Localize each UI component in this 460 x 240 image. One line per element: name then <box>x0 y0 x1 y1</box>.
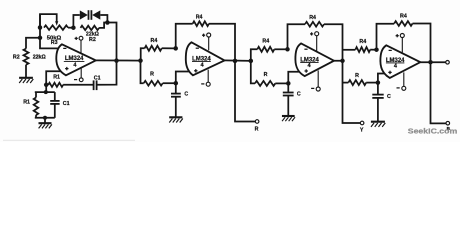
svg-text:C: C <box>184 91 188 97</box>
wire: feedback to output stage4 <box>413 24 431 63</box>
svg-text:R4: R4 <box>196 15 203 21</box>
junction R3/R2b/diode branch <box>71 25 76 30</box>
wire: U1C noninverting input <box>288 72 303 84</box>
junction stage3 input <box>249 59 254 64</box>
junction U1D output/feedback <box>428 60 433 64</box>
resistor R4 feedback stage2 <box>193 21 209 26</box>
svg-text:R2: R2 <box>13 55 20 61</box>
wire: series RC line <box>46 84 48 86</box>
svg-text:R4: R4 <box>309 15 316 21</box>
capacitor C stage3 plate 2 <box>283 95 294 97</box>
svg-text:SeekIC.com: SeekIC.com <box>408 126 458 135</box>
junction inverting node stage4 <box>374 47 379 52</box>
capacitor C1 parallel plate 1 <box>50 100 59 102</box>
ground at C stage3 <box>282 116 295 121</box>
capacitor C1 parallel plate 2 <box>50 103 59 105</box>
wire: R2b right lead up to junction <box>99 23 107 28</box>
wire: feedback riser stage2 <box>176 24 193 49</box>
op-amp U1A <box>56 44 96 75</box>
wire: stage2 input riser <box>141 48 145 60</box>
label R4 feedback stage3 <box>309 15 316 21</box>
wire: R3 right lead to node A2 <box>68 27 73 29</box>
ground at C stage4 <box>371 122 385 127</box>
junction U1C output / stage4 input <box>340 59 345 64</box>
wire: inverting node vertical (node A) <box>40 14 60 48</box>
wire: V- stub U1D <box>403 72 405 86</box>
wire: V+ stub U1B <box>208 37 210 50</box>
label C stage3 <box>297 91 301 97</box>
label R4 input stage4 <box>359 39 366 45</box>
op-amp U1C <box>295 43 334 76</box>
wire: U1B output to stage3 <box>225 59 251 62</box>
resistor R4 input stage4 <box>355 47 370 52</box>
junction parallel RC bottom <box>43 116 47 120</box>
svg-text:C1: C1 <box>63 101 70 107</box>
wire: C1p bottom lead <box>54 104 56 117</box>
label output Y <box>360 128 364 134</box>
svg-text:R: R <box>355 73 359 79</box>
cathode bar D1 <box>88 10 90 20</box>
svg-text:R4: R4 <box>359 39 366 45</box>
label R4 feedback stage4 <box>400 14 407 20</box>
wire: feedback to output stage2 <box>209 24 235 61</box>
junction inverting node stage3 <box>285 47 290 52</box>
svg-text:22kΩ: 22kΩ <box>33 55 47 61</box>
op-amp U1D <box>380 45 420 78</box>
wire: V+ stub U1D <box>401 38 403 53</box>
wire: C top lead stage3 <box>287 83 289 92</box>
resistor R4 feedback stage3 <box>305 22 324 27</box>
wire: R to C node stage3 <box>275 82 288 84</box>
label C1 parallel designator <box>63 101 70 107</box>
wire: R to C node stage2 <box>163 82 176 84</box>
capacitor C stage2 plate 1 <box>171 93 181 95</box>
wire: C1 to output riser <box>97 61 116 85</box>
wire: R2 bottom lead <box>25 65 27 78</box>
wire: feedback to output stage3 <box>324 24 343 61</box>
capacitor C stage3 plate 1 <box>283 92 294 94</box>
label R2b designator <box>89 37 96 43</box>
svg-text:R4: R4 <box>151 38 158 44</box>
wire: U1D noninverting input <box>378 74 389 83</box>
resistor R4 input stage2 <box>145 46 162 51</box>
wire: C top lead stage4 <box>377 83 379 94</box>
capacitor C stage4 plate 2 <box>372 97 383 99</box>
wire: R1p bottom lead <box>35 115 37 118</box>
wire: feedback riser stage3 <box>288 24 306 49</box>
pin V+ terminal U1D <box>400 34 404 38</box>
wire: C1p top lead <box>54 92 56 100</box>
wire: R2 top lead <box>26 38 40 49</box>
label C stage4 <box>387 94 391 100</box>
svg-text:Y: Y <box>360 128 364 134</box>
wire: to parallel RC <box>45 85 47 92</box>
wire: diode branch left riser <box>73 15 79 28</box>
wire: U1A noninverting input <box>46 71 62 85</box>
wire: V+ stub U1A <box>80 40 82 54</box>
resistor R stage4 <box>348 80 366 85</box>
wire: V- stub U1A <box>80 68 82 78</box>
wire: feedback riser stage4 <box>377 24 395 50</box>
wire: U1C output to stage4 <box>334 60 343 62</box>
resistor R2b 22k feedback <box>81 26 100 30</box>
capacitor C1 series plate 2 <box>96 80 98 90</box>
wire: U1D output <box>420 61 445 63</box>
terminal output R <box>255 120 259 124</box>
resistor R stage3 <box>255 81 275 86</box>
wire: output R tap <box>235 61 255 122</box>
wire: feedback to U1A output <box>107 23 116 61</box>
wire: output B tap <box>431 62 447 123</box>
wire: parallel RC bottom <box>35 117 55 119</box>
label R3 value 50kΩ <box>47 36 62 42</box>
scan artifact line <box>3 139 135 142</box>
ground at parallel RC <box>39 123 52 128</box>
label R1 series designator <box>53 75 60 81</box>
label R4 input stage2 <box>151 38 158 44</box>
potentiometer R3 50k <box>44 25 68 30</box>
svg-text:C: C <box>297 91 301 97</box>
label output B <box>447 126 451 131</box>
wire: stage3 input drop <box>251 61 255 84</box>
wire: C bottom lead stage4 <box>377 98 379 121</box>
label R2 value 22kΩ <box>33 55 47 61</box>
label R2 designator <box>13 55 20 61</box>
wire: R4 to inverting node stage2 <box>162 47 176 49</box>
resistor R1 series <box>48 83 63 87</box>
label R3 designator <box>51 40 58 46</box>
wire: R to C node stage4 <box>366 82 378 84</box>
junction stage2 input <box>138 58 143 63</box>
wire: stage2 input drop <box>141 61 144 84</box>
svg-text:R1: R1 <box>53 75 60 81</box>
wire: stage4 R4 branch <box>343 49 356 51</box>
junction diode/R2b right <box>105 20 110 25</box>
wiper arrow of R3 <box>55 21 58 26</box>
diode D1 <box>80 10 88 19</box>
svg-text:R2: R2 <box>89 37 96 43</box>
resistor R4 input stage3 <box>257 47 274 52</box>
wire: stage3 input riser <box>251 49 257 61</box>
junction RC node stage3 <box>286 81 291 86</box>
resistor R1 parallel <box>34 98 39 116</box>
label R stage4 <box>355 73 359 79</box>
junction RC node stage4 <box>376 80 381 85</box>
label R1 parallel designator <box>23 100 30 106</box>
junction parallel RC top <box>44 90 48 94</box>
pin V- terminal U1B <box>206 82 210 86</box>
label V+ U1D <box>396 34 399 37</box>
junction RC node stage2 <box>174 81 179 86</box>
op-amp U1B <box>186 42 225 75</box>
wire: R1 to C1 <box>63 84 93 86</box>
wire: output Y tap <box>343 61 361 123</box>
svg-text:R3: R3 <box>51 40 58 46</box>
pin V+ terminal U1C <box>315 32 319 36</box>
label V- U1C <box>311 87 314 89</box>
label R stage3 <box>264 72 268 78</box>
label C1 series designator <box>94 76 101 82</box>
wire: C bottom lead stage3 <box>287 96 289 116</box>
wire: V- stub U1C <box>317 70 319 87</box>
svg-text:R4: R4 <box>400 14 407 20</box>
wire: C bottom lead stage2 <box>175 97 177 117</box>
pin V- terminal U1A <box>79 78 83 82</box>
label C stage2 <box>184 91 188 97</box>
label R4 feedback stage2 <box>196 15 203 21</box>
resistor R stage2 <box>144 81 163 86</box>
pin V+ terminal U1B <box>207 33 211 37</box>
resistor R4 feedback stage4 <box>394 21 412 26</box>
wire: U1A output to U1B input <box>96 59 141 61</box>
capacitor C stage2 plate 2 <box>171 96 181 98</box>
svg-text:R: R <box>264 72 268 78</box>
junction inverting node stage2 <box>173 46 178 51</box>
ground at R2 <box>19 78 33 83</box>
svg-text:R: R <box>150 71 154 77</box>
watermark SeekIC.com <box>408 126 458 135</box>
label V+ U1B <box>202 34 205 37</box>
svg-text:R1: R1 <box>23 100 30 106</box>
wire: U1B noninverting input <box>176 72 193 84</box>
label V+ U1A <box>75 37 78 40</box>
wire: ground stub <box>44 118 46 123</box>
label R stage2 <box>150 71 154 77</box>
wire: stage4 R branch <box>343 82 349 84</box>
wire: C top lead stage2 <box>175 83 177 93</box>
cathode bar D2 <box>90 10 92 20</box>
wire: V- stub U1B <box>207 70 209 83</box>
junction U1A output <box>114 58 119 63</box>
pin V- terminal U1D <box>402 86 406 90</box>
terminal main output <box>446 61 450 65</box>
svg-text:R: R <box>255 126 259 132</box>
resistor R2 22k vertical <box>24 49 29 65</box>
svg-text:C1: C1 <box>94 76 101 82</box>
junction node A / R3 left <box>38 25 43 30</box>
wire: R3 wiper bypass loop <box>40 14 57 27</box>
pin V+ terminal U1A <box>79 36 83 40</box>
label V- U1B <box>201 83 204 85</box>
wire: parallel RC top <box>35 91 55 93</box>
wire: diode branch right lead <box>100 15 107 23</box>
pin V- terminal U1C <box>316 87 320 91</box>
wire: R4 to inverting node stage4 <box>370 49 376 51</box>
wire: R1p top lead <box>35 92 37 97</box>
junction noninverting node <box>44 83 49 88</box>
terminal output B <box>446 121 450 125</box>
junction node A / R2 top <box>38 36 43 41</box>
label V- U1D <box>397 87 400 89</box>
label V+ U1C <box>310 32 313 35</box>
terminal output Y <box>360 121 364 125</box>
ground at C stage2 <box>169 117 183 122</box>
label output R <box>255 126 259 132</box>
wire: R4 to inverting node stage3 <box>274 48 287 50</box>
svg-text:R4: R4 <box>262 39 269 45</box>
label R4 input stage3 <box>262 39 269 45</box>
capacitor C stage4 plate 1 <box>372 94 383 96</box>
capacitor C1 series plate 1 <box>93 80 95 90</box>
wire: V+ stub U1C <box>316 36 318 52</box>
svg-text:C: C <box>387 94 391 100</box>
label V- U1A <box>74 79 77 81</box>
label R2b value 22kΩ <box>86 32 100 38</box>
junction U1B output/feedback <box>233 59 238 64</box>
diode D2 <box>92 10 100 19</box>
